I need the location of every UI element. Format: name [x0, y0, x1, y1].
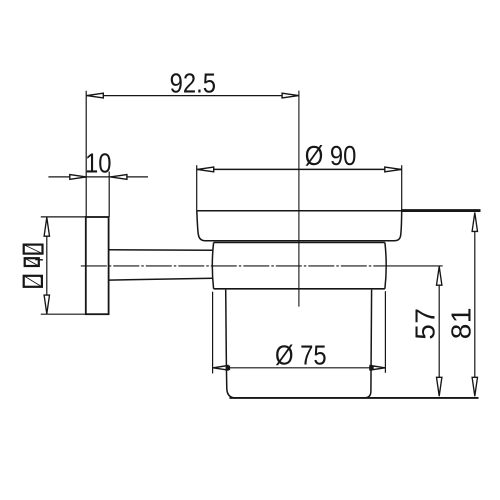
svg-text:57: 57	[410, 308, 441, 340]
svg-text:81: 81	[446, 307, 477, 339]
svg-text:10: 10	[85, 147, 111, 179]
svg-text:Ø 90: Ø 90	[305, 139, 357, 171]
svg-text:92.5: 92.5	[170, 66, 216, 98]
svg-text:Ø 75: Ø 75	[275, 338, 327, 370]
